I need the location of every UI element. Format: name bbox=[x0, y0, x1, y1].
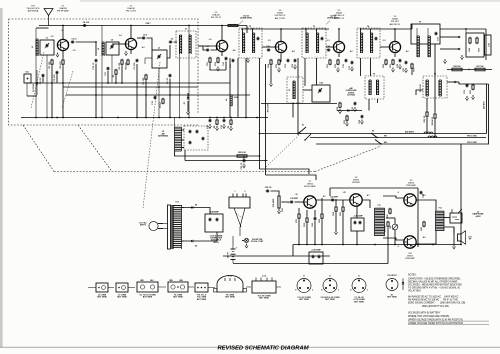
resistor R41 bbox=[423, 221, 425, 222]
svg-text:BOT VIEW: BOT VIEW bbox=[387, 297, 397, 299]
capacitor C44b bbox=[420, 191, 422, 192]
resistor R16 bbox=[337, 59, 339, 60]
wire V4 leads bbox=[280, 29, 282, 42]
svg-text:T1: T1 bbox=[185, 29, 187, 31]
svg-text:BOT VIEW: BOT VIEW bbox=[299, 299, 309, 301]
svg-text:2SA268: 2SA268 bbox=[59, 7, 68, 10]
transformer bus stubs bbox=[305, 29, 307, 33]
svg-text:R29 3.3K: R29 3.3K bbox=[238, 152, 246, 154]
AC plug bbox=[149, 221, 158, 230]
wire AM IF line bbox=[260, 133, 487, 135]
power transformer T13 bbox=[168, 205, 171, 249]
svg-text:-8.9: -8.9 bbox=[422, 237, 425, 239]
switch S2 contacts bbox=[371, 133, 377, 138]
resistor R38 bbox=[389, 208, 391, 209]
capacitor C6 bbox=[169, 41, 170, 43]
diode D5 2nd det bbox=[447, 81, 459, 83]
svg-text:AM CONV: AM CONV bbox=[275, 17, 286, 20]
svg-text:-1.2: -1.2 bbox=[382, 40, 385, 42]
svg-text:S1: S1 bbox=[302, 125, 304, 127]
legend diode pack bbox=[386, 279, 398, 291]
transistor V9 bbox=[404, 194, 416, 206]
svg-text:VOLTAGES - MEASURED FROM POINT: VOLTAGES - MEASURED FROM POINT INDICATED bbox=[408, 283, 462, 286]
capacitor C28b bbox=[399, 59, 401, 60]
electrolytic C30 bbox=[485, 35, 492, 55]
svg-text:3 4 5: 3 4 5 bbox=[228, 275, 232, 278]
oscillator coil L3 box bbox=[152, 50, 167, 68]
filter capacitor C48 bbox=[205, 214, 223, 232]
coil humps on IF lines bbox=[424, 132, 433, 134]
svg-text:2SA240: 2SA240 bbox=[212, 14, 221, 17]
diode D1 bbox=[36, 82, 39, 84]
resistor R21 bbox=[392, 59, 394, 60]
svg-text:2: 2 bbox=[245, 191, 246, 193]
svg-text:C39 5MF: C39 5MF bbox=[290, 198, 299, 200]
transformer T2 bbox=[239, 28, 262, 58]
svg-text:VOLTAGES WITH 9V BATTERY: VOLTAGES WITH 9V BATTERY bbox=[408, 311, 441, 314]
ground V6 cluster bbox=[392, 68, 394, 70]
svg-text:C38 .05: C38 .05 bbox=[265, 187, 272, 189]
svg-text:R1 12K: R1 12K bbox=[49, 61, 51, 68]
svg-text:PWR AMP: PWR AMP bbox=[406, 184, 416, 187]
capacitor C10 bbox=[95, 59, 97, 60]
svg-text:BOT VIEW: BOT VIEW bbox=[197, 299, 207, 301]
svg-text:R23 10K: R23 10K bbox=[420, 84, 422, 92]
legend T10 T11 T12 connector bbox=[195, 283, 208, 292]
svg-text:R7 1K: R7 1K bbox=[160, 102, 162, 108]
svg-text:REVISED SCHEMATIC DIAGRAM: REVISED SCHEMATIC DIAGRAM bbox=[217, 346, 308, 352]
svg-text:C64 7: C64 7 bbox=[145, 22, 151, 25]
resistor R2 bbox=[62, 59, 64, 60]
legend T9 connector bbox=[217, 276, 243, 293]
svg-text:-8.6: -8.6 bbox=[232, 50, 235, 52]
svg-text:BOT VIEW: BOT VIEW bbox=[143, 297, 153, 299]
svg-text:R27 10K: R27 10K bbox=[476, 66, 484, 68]
svg-text:-1.2: -1.2 bbox=[72, 50, 75, 52]
electrolytic C41 bbox=[351, 218, 364, 231]
capacitor C11 bbox=[107, 67, 109, 68]
capacitor C12 bbox=[154, 96, 156, 97]
transformer T3 bbox=[302, 28, 326, 58]
coil L2 bbox=[101, 42, 103, 56]
legend V3-V6 socket bbox=[323, 279, 337, 293]
svg-text:-8.9: -8.9 bbox=[422, 195, 425, 197]
capacitor C8 bbox=[142, 37, 143, 39]
connector ant jack bbox=[24, 74, 31, 83]
coil L4 bbox=[229, 58, 231, 95]
svg-text:C2 10: C2 10 bbox=[71, 39, 76, 41]
coil L1 bbox=[35, 39, 37, 56]
svg-text:0: 0 bbox=[62, 30, 63, 32]
legend V1 V2 socket bbox=[297, 279, 311, 293]
capacitor C4 bbox=[83, 25, 84, 27]
svg-text:BOT VIEW: BOT VIEW bbox=[97, 297, 107, 299]
svg-text:ONLY): ONLY) bbox=[213, 242, 219, 244]
svg-text:-.3: -.3 bbox=[397, 192, 399, 194]
svg-text:-1.5: -1.5 bbox=[50, 36, 53, 38]
capacitor C63 bbox=[42, 74, 44, 75]
FM tuner shield dashed outline bbox=[9, 19, 199, 125]
wire det to volume bbox=[260, 169, 310, 174]
svg-text:T9: T9 bbox=[419, 22, 421, 24]
legend L7 connector bbox=[116, 283, 128, 292]
cluster below ground bus bbox=[209, 119, 211, 120]
transformer T4 bbox=[357, 28, 380, 58]
ground 2nd det bbox=[466, 96, 468, 98]
resistor R27b bbox=[426, 111, 428, 112]
capacitor C27 bbox=[435, 32, 437, 33]
svg-text:C1: C1 bbox=[46, 38, 48, 40]
ground V1 emitter bbox=[57, 53, 59, 55]
resistor R34 bbox=[335, 206, 337, 207]
svg-text:ON VOL CONT: ON VOL CONT bbox=[251, 241, 264, 243]
resistor R3 bbox=[121, 59, 123, 60]
svg-text:S2: S2 bbox=[372, 131, 374, 133]
svg-text:C3 .005: C3 .005 bbox=[54, 74, 56, 82]
svg-text:+C48 40MF: +C48 40MF bbox=[209, 211, 219, 214]
trimmer C1 bbox=[40, 40, 54, 55]
svg-text:-.3: -.3 bbox=[397, 246, 399, 248]
transistor V4 bbox=[275, 41, 286, 52]
wire det out bus A bbox=[178, 155, 260, 157]
resistor R35 bbox=[342, 206, 344, 207]
transistor V1 bbox=[57, 39, 68, 50]
wire FM IF line 1 bbox=[310, 137, 486, 139]
resistor R26b avc bbox=[470, 69, 492, 71]
wire top FM bus bbox=[39, 25, 224, 27]
title rule bbox=[0, 346, 500, 348]
svg-text:R3 15K: R3 15K bbox=[119, 62, 121, 69]
wire audio bottom bus bbox=[293, 244, 461, 246]
wire V3 leads bbox=[221, 29, 223, 40]
transistor V6 bbox=[389, 41, 400, 52]
wire FM bus mid bbox=[27, 82, 230, 84]
svg-text:WHERE TWO VOLTAGES ARE SHOWN,: WHERE TWO VOLTAGES ARE SHOWN, bbox=[408, 315, 450, 318]
rectifier diode D6 bbox=[182, 240, 205, 242]
wire V6 leads bbox=[394, 29, 396, 42]
svg-text:(SOME SETS): (SOME SETS) bbox=[240, 18, 252, 20]
resistor R6 bbox=[115, 69, 117, 70]
legend T6 T8 connector bbox=[252, 281, 276, 293]
legend diode symbol bbox=[402, 279, 404, 291]
diode D7 bbox=[187, 97, 190, 99]
svg-text:R16 6.8K: R16 6.8K bbox=[268, 103, 270, 112]
wire T9 drop bbox=[434, 44, 436, 95]
svg-text:AM AVC: AM AVC bbox=[483, 101, 486, 109]
svg-text:D5: D5 bbox=[195, 205, 197, 207]
wire battery B+ line bbox=[233, 263, 388, 265]
capacitor C9 bbox=[169, 74, 171, 75]
legend T2 T3 T4 connector bbox=[137, 282, 158, 292]
capacitor C24 bbox=[327, 49, 328, 51]
ground V5 cluster bbox=[337, 68, 339, 70]
cluster under T9 bbox=[405, 61, 407, 62]
wire V4-V5 top bus bbox=[241, 28, 329, 30]
capacitor C39 bbox=[290, 201, 291, 203]
svg-text:R28 4.5K: R28 4.5K bbox=[431, 116, 434, 125]
svg-text:AM RANGE 535 KC TO 1620 KC: AM RANGE 535 KC TO 1620 KC AM IF 455 KC bbox=[408, 295, 459, 298]
svg-text:DRIVER: DRIVER bbox=[352, 182, 360, 184]
transformer T11 bbox=[374, 208, 376, 236]
capacitor C7 bbox=[136, 59, 138, 60]
svg-text:2SA52: 2SA52 bbox=[277, 12, 284, 15]
resistor R7 bbox=[162, 98, 164, 99]
svg-text:BOT VIEW: BOT VIEW bbox=[117, 297, 127, 299]
svg-text:D1 1N60: D1 1N60 bbox=[33, 83, 35, 92]
resistor R5 bbox=[145, 74, 147, 75]
capacitor C37 bbox=[243, 159, 245, 160]
capacitor C20 bbox=[267, 49, 268, 51]
capacitor C21 bbox=[287, 59, 289, 60]
pilot lamp bbox=[244, 238, 248, 242]
transistor V5 bbox=[333, 41, 344, 52]
transformer T12 bbox=[435, 211, 437, 231]
svg-text:CAPACITORS - UNLESS OTHERWISE: CAPACITORS - UNLESS OTHERWISE SPECIFIED, bbox=[408, 277, 461, 280]
wire audio feedback bbox=[330, 187, 418, 189]
svg-text:B1 9V: B1 9V bbox=[228, 252, 230, 258]
clock timer receptacle bbox=[229, 197, 250, 208]
svg-text:-1.4: -1.4 bbox=[118, 34, 121, 37]
legend L2 connector bbox=[96, 283, 108, 292]
capacitor C32 bbox=[466, 84, 468, 85]
resistor R14 bbox=[270, 59, 272, 60]
resistor R17 bbox=[329, 59, 331, 60]
switch S3 on-off bbox=[234, 208, 241, 227]
svg-text:DECIMAL VALUES IN MF, ALL OTHE: DECIMAL VALUES IN MF, ALL OTHERS IN MMF. bbox=[408, 280, 458, 283]
transistor V8 bbox=[350, 194, 362, 206]
wire V6 top bus bbox=[360, 28, 412, 30]
resistor R39 bbox=[387, 221, 389, 222]
junction dots ground bus bbox=[35, 117, 37, 119]
battery B1 bbox=[231, 248, 236, 250]
coupling parts V7-V8 bbox=[316, 199, 350, 201]
svg-text:AM 2ND IF: AM 2ND IF bbox=[390, 23, 401, 26]
svg-text:-.25: -.25 bbox=[342, 192, 345, 194]
legend leads bbox=[88, 287, 96, 289]
wire V9 V10 collectors bbox=[416, 200, 436, 211]
svg-text:C10 .01: C10 .01 bbox=[93, 62, 95, 70]
capacitor C3 bbox=[56, 71, 58, 72]
svg-text:-8.2: -8.2 bbox=[349, 51, 352, 53]
electrolytic C40 bbox=[309, 252, 323, 264]
svg-text:+C40 30MF: +C40 30MF bbox=[311, 249, 321, 252]
wire det out bus B bbox=[185, 160, 268, 162]
transistor V10 bbox=[404, 236, 416, 248]
svg-text:2 4 5: 2 4 5 bbox=[262, 274, 266, 277]
AM osc trimmer box bbox=[312, 85, 330, 102]
svg-text:T11: T11 bbox=[377, 205, 380, 207]
resistor R31 bbox=[298, 213, 300, 214]
wire V1 leads bbox=[62, 28, 64, 39]
svg-text:BOT VIEW: BOT VIEW bbox=[325, 299, 335, 301]
svg-text:FM 1ST IF: FM 1ST IF bbox=[211, 17, 222, 19]
transformer T9 ratio det bbox=[411, 24, 440, 44]
chassis dashed outline bbox=[23, 125, 54, 172]
transformer T6 bbox=[365, 76, 384, 99]
resistor R29 on line bbox=[237, 155, 247, 157]
resistor R12 bbox=[217, 57, 219, 58]
svg-text:2SA52: 2SA52 bbox=[336, 12, 343, 15]
svg-text:BOT VIEW: BOT VIEW bbox=[173, 297, 183, 299]
svg-text:C7 .005: C7 .005 bbox=[134, 62, 136, 70]
svg-text:T13: T13 bbox=[175, 202, 178, 204]
capacitor C19 bbox=[351, 61, 353, 62]
diode D9 bbox=[455, 48, 458, 50]
ground V3 cluster bbox=[217, 67, 219, 69]
ground bus FM tuner bbox=[21, 117, 268, 119]
speaker LS1 bbox=[458, 234, 462, 241]
AM loop antenna L5 bbox=[174, 127, 176, 151]
diode D8 bbox=[455, 36, 458, 38]
svg-text:T3: T3 bbox=[313, 26, 315, 28]
wire B plus rail bbox=[460, 144, 462, 245]
legend T5 connector bbox=[168, 282, 188, 292]
transistor V2 bbox=[125, 38, 136, 49]
legend V7-V10 socket bbox=[352, 279, 366, 293]
svg-text:+C41 50MF: +C41 50MF bbox=[353, 215, 363, 218]
resistor R4 bbox=[127, 59, 129, 60]
capacitor C14 bbox=[206, 49, 207, 51]
svg-text:D2 1N34: D2 1N34 bbox=[347, 94, 355, 97]
wire V5 leads bbox=[338, 29, 340, 42]
svg-text:BOT VIEW: BOT VIEW bbox=[225, 297, 235, 299]
svg-text:C6: C6 bbox=[171, 39, 173, 41]
resistor cluster AM conv bbox=[339, 102, 341, 103]
wire FM IF line 2 bbox=[316, 143, 489, 145]
svg-text:VOL AT MIN.: VOL AT MIN. bbox=[408, 289, 421, 292]
svg-text:PWR AMP: PWR AMP bbox=[405, 257, 415, 260]
wire det top bbox=[440, 28, 486, 30]
capacitor C25 bbox=[345, 59, 347, 60]
wire driver coupling bbox=[362, 200, 370, 208]
resistor R33 bbox=[321, 213, 323, 214]
svg-text:T12: T12 bbox=[438, 208, 441, 210]
tuning gang dashed link bbox=[31, 52, 44, 108]
svg-text:FM RANGE 88 MC TO 108 MC: FM RANGE 88 MC TO 108 MC FM IF 10.7 MC bbox=[408, 298, 458, 301]
wire L5 taps bbox=[182, 129, 185, 131]
wire T2 drop bbox=[245, 58, 247, 118]
capacitor C22 bbox=[294, 59, 296, 60]
switch S1 bbox=[299, 127, 306, 133]
oscillator coil L7 bbox=[287, 77, 303, 103]
wire AM row bbox=[261, 103, 337, 105]
svg-text:D6: D6 bbox=[195, 246, 197, 248]
svg-text:FM RF AMP: FM RF AMP bbox=[57, 10, 69, 13]
svg-text:16MA (9V0 BATT VOL FM): 16MA (9V0 BATT VOL FM) bbox=[408, 305, 449, 308]
wire V2 leads bbox=[130, 26, 132, 39]
svg-text:R2 4.7K: R2 4.7K bbox=[59, 61, 62, 69]
svg-text:BOT VIEW: BOT VIEW bbox=[354, 301, 364, 303]
diode D4 on wire bbox=[337, 110, 362, 112]
svg-text:-1.3: -1.3 bbox=[326, 40, 329, 42]
svg-text:FM CONV: FM CONV bbox=[126, 11, 137, 13]
svg-text:NOTES:: NOTES: bbox=[408, 274, 417, 276]
volume control R30 bbox=[278, 195, 280, 196]
transistor V7 bbox=[304, 196, 316, 208]
svg-text:FM 10.7MC: FM 10.7MC bbox=[467, 136, 478, 138]
svg-text:C61: C61 bbox=[25, 72, 28, 74]
svg-text:INPUT: INPUT bbox=[140, 225, 147, 227]
svg-text:2SA52: 2SA52 bbox=[392, 18, 399, 21]
wire AM IF drops bbox=[259, 58, 261, 169]
FM telescope antenna bbox=[44, 9, 53, 16]
capacitor C16 bbox=[225, 57, 227, 58]
wire output bbox=[444, 217, 450, 219]
svg-text:ANTENNA: ANTENNA bbox=[158, 135, 168, 138]
svg-text:C43 5MF: C43 5MF bbox=[330, 196, 339, 199]
svg-text:-8.2: -8.2 bbox=[141, 47, 144, 49]
transistor V3 bbox=[216, 40, 227, 51]
svg-text:(SOME SETS): (SOME SETS) bbox=[327, 18, 339, 20]
resistor R15 bbox=[278, 59, 280, 60]
capacitor C38 bbox=[266, 190, 267, 192]
svg-text:BOT VIEW: BOT VIEW bbox=[259, 298, 269, 300]
resistor R28 bbox=[434, 113, 436, 114]
svg-text:2SA240: 2SA240 bbox=[127, 7, 136, 10]
resistor R11 bbox=[209, 57, 211, 58]
svg-text:FM 10.7MC: FM 10.7MC bbox=[467, 142, 478, 144]
resistor R1 bbox=[51, 59, 53, 60]
svg-text:T6: T6 bbox=[373, 74, 375, 76]
svg-text:TO GROUND WITH A VTVM, ⎓ ON NO: TO GROUND WITH A VTVM, ⎓ ON NO SIGNAL IN… bbox=[408, 286, 461, 289]
svg-text:UPPER VOLTAGE TAKEN WITH S2 IN: UPPER VOLTAGE TAKEN WITH S2 IN FM POSITI… bbox=[408, 318, 463, 321]
svg-text:-8.5: -8.5 bbox=[322, 196, 325, 198]
svg-text:VOLUME: VOLUME bbox=[273, 198, 275, 207]
svg-text:R4 8.2K: R4 8.2K bbox=[125, 62, 128, 70]
ground det bbox=[444, 59, 446, 61]
thermistor M1 bbox=[392, 224, 398, 230]
svg-text:-8.7: -8.7 bbox=[366, 195, 369, 197]
ground V4 cluster bbox=[278, 68, 280, 70]
capacitor C42a bbox=[314, 217, 316, 218]
svg-text:T2: T2 bbox=[249, 26, 251, 28]
detector load box R24 R25 bbox=[466, 33, 484, 57]
svg-text:JACK: JACK bbox=[475, 215, 481, 218]
capacitor C2 bbox=[71, 41, 72, 43]
svg-text:ZERO SIGNAL CURRENT - 13M: ZERO SIGNAL CURRENT - 13MA (9V0 MIN VOL … bbox=[408, 301, 466, 304]
antenna padder box bbox=[184, 126, 208, 150]
svg-text:R26 2K: R26 2K bbox=[424, 115, 426, 122]
svg-text:C5: C5 bbox=[111, 40, 113, 42]
earphone jack bbox=[450, 213, 462, 223]
svg-text:R39 56: R39 56 bbox=[385, 225, 387, 232]
wire right rail bbox=[486, 84, 488, 134]
rectifier diode D5 bbox=[182, 207, 205, 209]
svg-text:C4 .001: C4 .001 bbox=[83, 21, 90, 24]
transformer T8 bbox=[423, 76, 447, 98]
svg-text:-8.0: -8.0 bbox=[405, 51, 408, 53]
capacitor C17 bbox=[232, 59, 234, 60]
svg-text:COLOR DOT: COLOR DOT bbox=[387, 275, 397, 277]
transformer T1 bbox=[176, 31, 196, 58]
svg-text:-8.4: -8.4 bbox=[291, 50, 294, 53]
svg-text:0: 0 bbox=[131, 29, 132, 31]
svg-text:-1.6: -1.6 bbox=[208, 39, 211, 41]
resistor R32 bbox=[306, 217, 308, 218]
svg-text:R26 10K: R26 10K bbox=[453, 66, 461, 68]
svg-text:AM 455KC: AM 455KC bbox=[405, 130, 415, 133]
svg-text:C8 5: C8 5 bbox=[143, 35, 147, 37]
wire T8 in bbox=[416, 90, 423, 95]
svg-text:L3: L3 bbox=[158, 48, 160, 50]
svg-text:T8: T8 bbox=[434, 74, 436, 76]
svg-text:-1.5: -1.5 bbox=[267, 40, 270, 42]
svg-text:1: 1 bbox=[235, 191, 236, 193]
svg-text:LOWER VOLTAGE TAKEN WITH S2 IN: LOWER VOLTAGE TAKEN WITH S2 IN AM POSITI… bbox=[408, 322, 463, 325]
svg-text:AUDIO AMP: AUDIO AMP bbox=[304, 185, 316, 188]
resistor R20 bbox=[385, 59, 387, 60]
trimmer C5 bbox=[106, 42, 119, 55]
